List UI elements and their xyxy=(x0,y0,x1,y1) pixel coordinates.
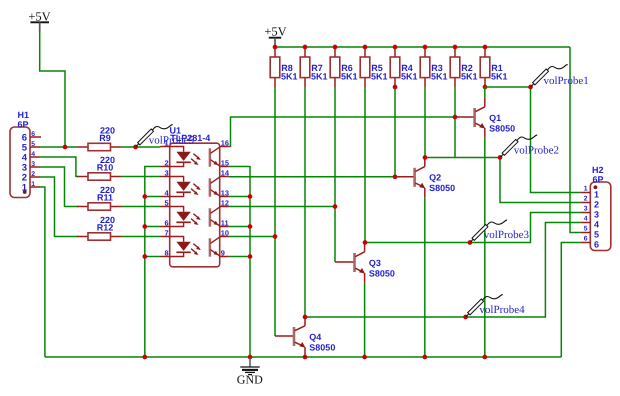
U1 pin 6 stub xyxy=(161,226,170,228)
wire H1 pin3 to R11 xyxy=(40,167,65,207)
H1 pin 2 stub xyxy=(30,176,40,178)
wire R9 left to junction xyxy=(65,146,77,148)
node R6 / U1 pin12 xyxy=(333,204,338,209)
resistor R1 5K1 xyxy=(480,47,507,87)
wire +5V rail xyxy=(275,46,570,48)
svg-text:+5V: +5V xyxy=(264,24,286,38)
node GND rail / Q3 emitter xyxy=(362,355,367,360)
node volProbe3 xyxy=(468,240,473,245)
node cathode/pin4 xyxy=(142,194,147,199)
resistor R8 5K1 xyxy=(270,47,297,87)
wire U1 pin15 emitters common to GND rail xyxy=(229,167,250,358)
U1 pin 11 stub xyxy=(220,226,229,228)
wire R6 to Q3 base xyxy=(334,87,336,262)
U1 channel 3 LED xyxy=(170,207,201,227)
node Q2 collector / R3 xyxy=(423,155,428,160)
wire R8 to Q4 base xyxy=(274,87,276,336)
U1 pin 15 stub xyxy=(220,166,229,168)
svg-text:3: 3 xyxy=(31,161,35,168)
svg-text:3: 3 xyxy=(164,169,168,178)
U1 pin 10 stub xyxy=(220,236,229,238)
node R1 / volProbe1 wire xyxy=(483,85,488,90)
svg-text:14: 14 xyxy=(221,169,230,178)
svg-text:13: 13 xyxy=(221,189,229,198)
svg-text:R11: R11 xyxy=(97,192,113,202)
node R8 / U1 pin10 xyxy=(273,234,278,239)
wire U1 pin16 to Q1 base xyxy=(229,117,455,147)
U1 pin 2 stub xyxy=(161,166,170,168)
connector H1 6P xyxy=(10,110,41,198)
U1 pin 8 stub xyxy=(161,256,170,258)
wire U1 pin13 to emitter column xyxy=(229,196,250,198)
wire R3 to Q2 collector xyxy=(424,87,426,158)
wire Q1 collector to volProbe1 to H2 pin1 xyxy=(485,87,581,193)
wire H1 pin2 to R12 xyxy=(40,177,55,237)
svg-text:5: 5 xyxy=(594,230,599,240)
svg-text:4: 4 xyxy=(584,216,588,223)
optocoupler U1 TLP281-4 xyxy=(161,126,230,267)
svg-text:6: 6 xyxy=(164,219,168,228)
wire H1 pin4 to R10 xyxy=(40,157,76,177)
svg-text:1: 1 xyxy=(584,186,588,193)
svg-text:10: 10 xyxy=(221,229,229,238)
wire R11 right to U1 pin5 xyxy=(121,206,161,208)
H2 pin 1 stub xyxy=(581,192,591,194)
svg-text:5: 5 xyxy=(584,226,588,233)
node GND rail / emitters/GND xyxy=(248,355,253,360)
wire U1 pin4 to cathode column xyxy=(145,196,161,198)
H2 pin 2 stub xyxy=(581,202,591,204)
node +5V rail / R2 xyxy=(453,45,458,50)
svg-text:6P: 6P xyxy=(18,119,29,129)
node GND rail / Q4 emitter xyxy=(303,355,308,360)
svg-text:4: 4 xyxy=(594,220,599,230)
node +5V rail / R6 xyxy=(333,45,338,50)
power +5V symbol top-left xyxy=(28,10,50,32)
transistor Q4 S8050 xyxy=(275,317,335,357)
node +5V rail / R7 xyxy=(303,45,308,50)
node emitter/pin13 xyxy=(248,194,253,199)
H2 pin 5 stub xyxy=(581,232,591,234)
svg-text:GND: GND xyxy=(237,373,263,387)
svg-text:S8050: S8050 xyxy=(429,183,455,193)
power +5V symbol above R8 xyxy=(264,24,286,45)
U1 pin 9 stub xyxy=(220,256,229,258)
probe volProbe2 xyxy=(501,135,538,157)
wire R5 to Q3 collector xyxy=(364,87,366,243)
U1 channel 2 LED xyxy=(170,177,201,197)
wire U1 cathodes common to GND rail xyxy=(145,167,161,358)
node Q1 base / R2 xyxy=(453,115,458,120)
probe volProbe5 at U1 pin1 xyxy=(136,125,173,147)
wire H1 pin5 to +5V/R9 junction xyxy=(40,146,65,148)
probe volProbe4 xyxy=(466,295,503,317)
H1 pin 3 stub xyxy=(30,166,40,168)
node cathode/pin8 xyxy=(142,254,147,259)
resistor R9 220 xyxy=(77,126,121,151)
node Q3 collector / R5 xyxy=(363,240,368,245)
H1 pin 5 stub xyxy=(30,146,40,148)
wire R12 right to U1 pin7 xyxy=(121,236,161,238)
svg-text:2: 2 xyxy=(584,196,588,203)
node +5V rail / R5 xyxy=(363,45,368,50)
node R4 lead joint xyxy=(393,85,398,90)
svg-text:volProbe1: volProbe1 xyxy=(544,75,589,87)
svg-text:volProbe2: volProbe2 xyxy=(514,144,559,156)
svg-text:5K1: 5K1 xyxy=(461,71,478,81)
wire U1 pin14 to Q2 base xyxy=(229,176,395,178)
svg-text:5K1: 5K1 xyxy=(281,71,298,81)
node volProbe4 xyxy=(463,315,468,320)
node +5V rail / R4 xyxy=(393,45,398,50)
wire +5V to H1.5/R9 junction xyxy=(40,32,65,148)
svg-text:volProbe3: volProbe3 xyxy=(484,229,530,241)
node +5V rail / R8 xyxy=(273,45,278,50)
H1 pin 4 stub xyxy=(30,156,40,158)
U1 pin 14 stub xyxy=(220,176,229,178)
resistor R6 5K1 xyxy=(330,47,357,87)
wire U1 pin6 to cathode column xyxy=(145,226,161,228)
svg-text:S8050: S8050 xyxy=(489,123,515,133)
svg-text:5K1: 5K1 xyxy=(491,71,508,81)
node cathode/pin6 xyxy=(142,224,147,229)
svg-text:5K1: 5K1 xyxy=(311,71,328,81)
node emitter/pin11 xyxy=(248,224,253,229)
wire +5V rail to H2 pin5 xyxy=(570,47,581,233)
wire U1 pin10 to R8 column xyxy=(229,236,275,238)
node volProbe1 xyxy=(528,85,533,90)
U1 pin 4 stub xyxy=(161,196,170,198)
node GND rail / Q1 emitter xyxy=(482,355,487,360)
node R9/H1.5/+5V junction xyxy=(63,145,68,150)
node volProbe2 xyxy=(498,155,503,160)
svg-text:Q3: Q3 xyxy=(369,258,381,268)
wire H1 pin1 to GND rail xyxy=(40,187,45,357)
svg-text:5K1: 5K1 xyxy=(401,71,418,81)
svg-text:5: 5 xyxy=(164,199,168,208)
probe volProbe3 xyxy=(470,220,507,242)
wire U1 pin8 to cathode column xyxy=(145,256,161,258)
U1 pin 12 stub xyxy=(220,206,229,208)
U1 pin 3 stub xyxy=(161,176,170,178)
wire R2 down across Q1 base xyxy=(454,87,456,158)
transistor Q2 S8050 xyxy=(395,158,455,358)
U1 pin 16 stub xyxy=(220,146,229,148)
svg-text:8: 8 xyxy=(164,249,168,258)
U1 channel 3 phototransistor xyxy=(210,207,220,227)
svg-text:S8050: S8050 xyxy=(309,342,335,352)
svg-text:volProbe4: volProbe4 xyxy=(479,304,525,316)
resistor R12 220 xyxy=(77,215,121,240)
H2 pin 6 stub xyxy=(581,242,591,244)
ground symbol GND xyxy=(237,357,263,387)
svg-text:R9: R9 xyxy=(99,133,111,143)
U1 channel 2 phototransistor xyxy=(210,177,220,197)
U1 pin 13 stub xyxy=(220,196,229,198)
svg-text:2: 2 xyxy=(594,200,599,210)
U1 channel 4 LED xyxy=(170,237,201,257)
svg-text:1: 1 xyxy=(31,181,35,188)
svg-text:2: 2 xyxy=(31,171,35,178)
svg-text:6P: 6P xyxy=(593,175,604,185)
resistor R4 5K1 xyxy=(390,47,417,87)
U1 channel 1 phototransistor xyxy=(210,147,220,167)
U1 pin 5 stub xyxy=(161,206,170,208)
node +5V rail / R1 xyxy=(483,45,488,50)
H2 pin1 marker xyxy=(594,185,598,189)
H1 pin 1 stub xyxy=(30,186,40,188)
svg-text:3: 3 xyxy=(594,210,599,220)
node emitter/pin9 xyxy=(248,254,253,259)
U1 pin 7 stub xyxy=(161,236,170,238)
svg-text:Q4: Q4 xyxy=(309,332,321,342)
U1 channel 4 phototransistor xyxy=(210,237,220,257)
transistor Q1 S8050 xyxy=(455,87,515,357)
wire R9 right to U1 pin1 xyxy=(121,146,161,148)
H1 pin 6 stub xyxy=(30,136,41,138)
wire U1 pin12 to R6 column xyxy=(229,206,335,208)
svg-text:6: 6 xyxy=(594,240,599,250)
resistor R7 5K1 xyxy=(300,47,327,87)
wire U1 pin11 to emitter column xyxy=(229,226,250,228)
H1 pin1 marker xyxy=(23,190,27,194)
svg-text:15: 15 xyxy=(221,159,229,168)
U1 channel 1 LED xyxy=(170,147,201,167)
svg-text:volProbe5: volProbe5 xyxy=(149,135,195,147)
wire R10 right to U1 pin3 xyxy=(121,176,161,178)
resistor R2 5K1 xyxy=(450,47,477,87)
node GND rail / Q2 emitter xyxy=(422,355,427,360)
svg-text:S8050: S8050 xyxy=(369,268,395,278)
resistor R3 5K1 xyxy=(420,47,447,87)
svg-text:12: 12 xyxy=(221,199,229,208)
svg-text:5K1: 5K1 xyxy=(371,71,388,81)
svg-text:7: 7 xyxy=(164,229,168,238)
svg-text:5K1: 5K1 xyxy=(431,71,448,81)
svg-text:R12: R12 xyxy=(97,222,114,232)
wire R4 to Q2 base junction xyxy=(394,87,396,177)
wire Q2 collector to volProbe2 to H2 pin2 xyxy=(425,158,581,203)
H2 pin 3 stub xyxy=(581,212,591,214)
svg-text:5: 5 xyxy=(31,141,35,148)
svg-text:6: 6 xyxy=(584,236,588,243)
svg-text:R10: R10 xyxy=(97,162,114,172)
node +5V rail / R3 xyxy=(423,45,428,50)
svg-text:16: 16 xyxy=(221,139,229,148)
connector H2 6P xyxy=(581,165,611,251)
wire Q3 collector to volProbe3 to H2 pin3 xyxy=(365,213,581,243)
node Q4 collector / R7 xyxy=(303,315,308,320)
svg-text:9: 9 xyxy=(221,249,225,258)
wire Q4 collector to volProbe4 to H2 pin4 xyxy=(305,223,581,318)
H2 pin 4 stub xyxy=(581,222,591,224)
svg-text:H2: H2 xyxy=(592,165,604,175)
svg-text:6: 6 xyxy=(31,131,35,138)
resistor R10 220 xyxy=(77,155,121,180)
svg-text:3: 3 xyxy=(584,206,588,213)
wire GND rail xyxy=(45,356,561,358)
svg-text:1: 1 xyxy=(594,190,599,200)
wire U1 pin9 to emitter column xyxy=(229,256,250,258)
svg-text:4: 4 xyxy=(31,151,35,158)
node GND rail / cathodes xyxy=(142,355,147,360)
U1 pin 1 stub xyxy=(161,146,170,148)
transistor Q3 S8050 xyxy=(335,243,395,358)
svg-text:2: 2 xyxy=(164,159,168,168)
node Q2 base / R4 xyxy=(393,174,398,179)
resistor R11 220 xyxy=(77,185,121,210)
svg-text:5K1: 5K1 xyxy=(341,71,358,81)
wire R7 to Q4 collector xyxy=(304,87,306,317)
svg-text:Q1: Q1 xyxy=(489,113,501,123)
resistor R5 5K1 xyxy=(360,47,387,87)
svg-text:Q2: Q2 xyxy=(429,173,441,183)
wire H2 pin6 to GND rail xyxy=(561,243,580,358)
probe volProbe1 xyxy=(531,65,568,87)
node R9 right / volProbe5 junction xyxy=(133,145,138,150)
svg-text:11: 11 xyxy=(221,219,229,228)
